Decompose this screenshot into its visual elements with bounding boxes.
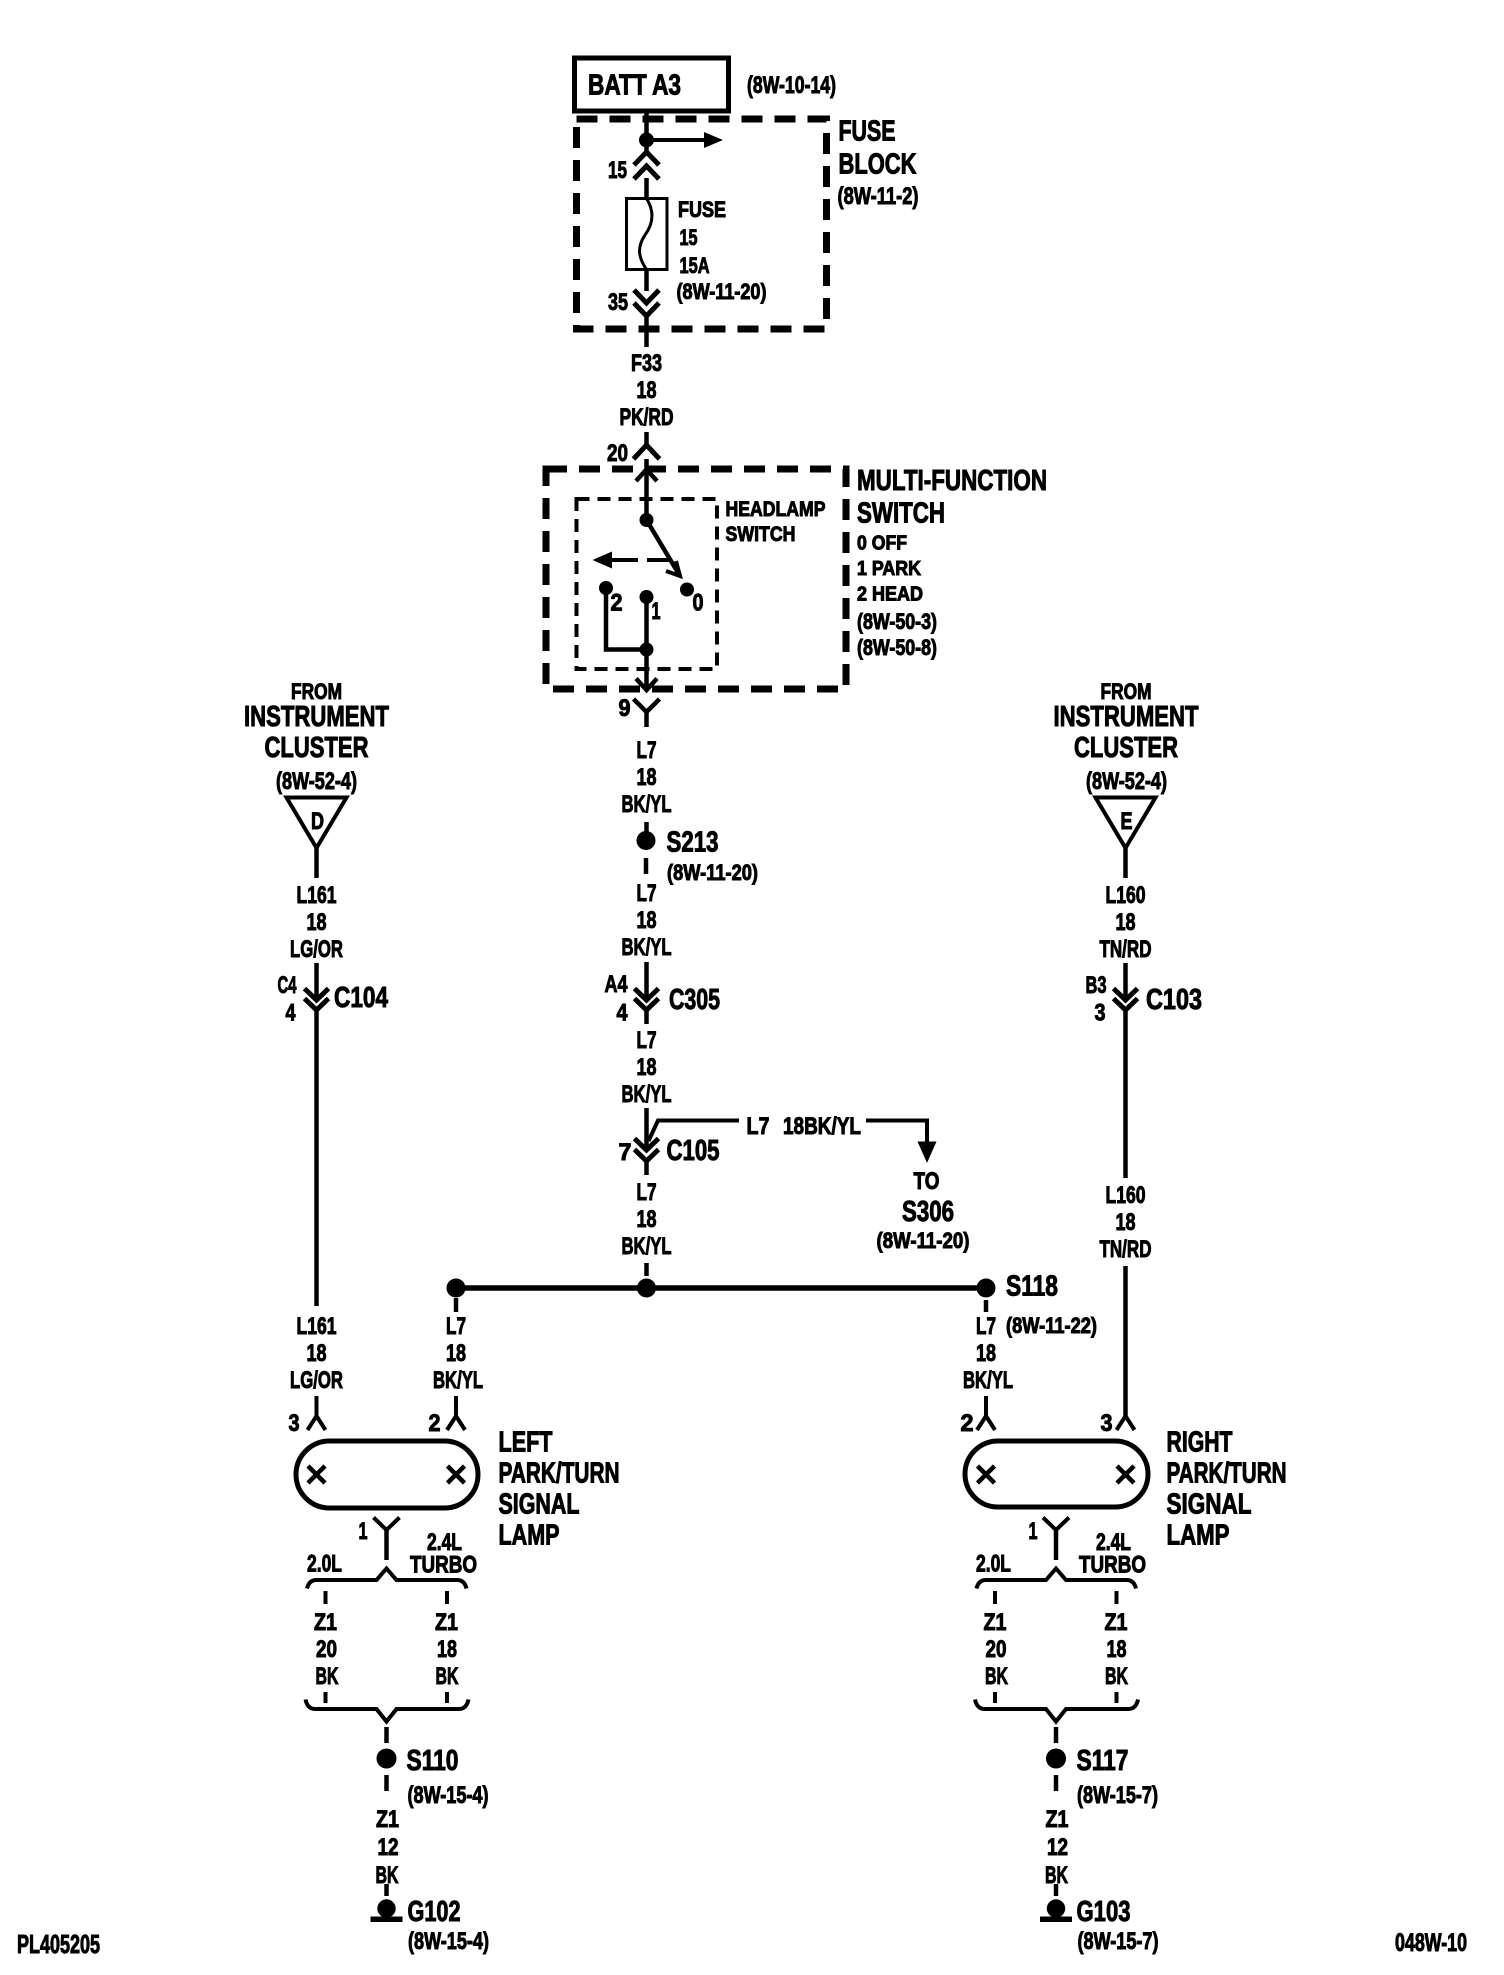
switch motion arrow — [593, 552, 613, 569]
svg-text:LAMP: LAMP — [1167, 1520, 1230, 1552]
svg-text:S117: S117 — [1077, 1745, 1129, 1777]
svg-text:18: 18 — [637, 377, 657, 404]
wire into C104 — [314, 963, 319, 998]
svg-text:18: 18 — [637, 1206, 657, 1233]
svg-text:SIGNAL: SIGNAL — [499, 1489, 580, 1521]
svg-text:SWITCH: SWITCH — [857, 498, 945, 530]
svg-text:(8W-15-7): (8W-15-7) — [1078, 1928, 1159, 1955]
connector C105 pin 7 chevrons — [635, 1139, 659, 1151]
svg-text:(8W-11-20): (8W-11-20) — [677, 279, 767, 304]
connector pin 9 Y symbol — [634, 699, 660, 712]
wire F33 lower segment — [644, 432, 649, 447]
svg-text:C305: C305 — [669, 984, 720, 1016]
variant merge brace (left) — [306, 1700, 469, 1722]
bus junction center node — [637, 1279, 656, 1298]
svg-text:HEADLAMP: HEADLAMP — [726, 498, 826, 521]
svg-text:L161: L161 — [297, 882, 337, 909]
svg-text:L7: L7 — [637, 737, 657, 764]
svg-text:G102: G102 — [408, 1896, 461, 1928]
svg-text:E: E — [1121, 808, 1133, 835]
svg-text:18: 18 — [307, 1340, 327, 1367]
switch blade to position 0 — [647, 520, 681, 576]
svg-text:TURBO: TURBO — [410, 1552, 477, 1579]
switch output junction node — [640, 643, 654, 657]
lamp pin 3 symbol (right) — [1117, 1416, 1126, 1430]
switch entry open arrow — [636, 470, 657, 482]
svg-text:L7: L7 — [637, 1027, 657, 1054]
wire stub 2.4L (left) — [445, 1591, 449, 1604]
lamp pin 2 symbol (right) — [984, 1396, 988, 1416]
left park/turn signal lamp body — [296, 1441, 478, 1508]
wire stub below S110 — [384, 1775, 389, 1791]
svg-text:BK: BK — [436, 1663, 459, 1690]
svg-text:2.0L: 2.0L — [976, 1551, 1011, 1578]
wire into C103 — [1123, 963, 1128, 998]
svg-text:G103: G103 — [1077, 1896, 1131, 1928]
svg-text:PL405205: PL405205 — [17, 1929, 100, 1959]
svg-text:PARK/TURN: PARK/TURN — [1167, 1458, 1287, 1490]
svg-text:L161: L161 — [297, 1313, 337, 1340]
svg-text:INSTRUMENT: INSTRUMENT — [244, 701, 389, 733]
svg-text:(8W-15-4): (8W-15-4) — [408, 1782, 489, 1809]
svg-text:TN/RD: TN/RD — [1100, 1236, 1152, 1263]
wire pin20 into switch — [644, 459, 649, 522]
svg-text:C105: C105 — [667, 1135, 720, 1167]
wire C104 to lamp label — [314, 1024, 319, 1306]
svg-text:C103: C103 — [1146, 984, 1202, 1016]
svg-text:12: 12 — [1047, 1834, 1068, 1861]
wire triangle E down — [1123, 848, 1128, 878]
connector C305 pin A4 chevrons — [635, 989, 659, 1001]
svg-text:3: 3 — [1101, 1410, 1113, 1437]
stub below BK 18 (left) — [445, 1692, 449, 1703]
splice bus wire — [456, 1285, 986, 1291]
svg-text:L7: L7 — [446, 1313, 466, 1340]
fuse block dashed box — [577, 119, 827, 329]
wire into C305 — [644, 962, 649, 998]
wire stub below S117 — [1054, 1775, 1059, 1791]
svg-text:(8W-11-22): (8W-11-22) — [1006, 1313, 1097, 1338]
svg-text:TURBO: TURBO — [1079, 1552, 1146, 1579]
svg-text:1: 1 — [359, 1518, 368, 1545]
off-page connector triangle E — [1096, 798, 1156, 849]
svg-text:(8W-10-14): (8W-10-14) — [747, 72, 836, 99]
wire contact 2 to junction — [606, 588, 647, 650]
svg-text:BK/YL: BK/YL — [622, 934, 672, 961]
lamp pin 1 symbol (left) — [374, 1518, 400, 1531]
svg-text:9: 9 — [619, 695, 631, 722]
svg-text:A4: A4 — [605, 971, 628, 998]
power source box BATT A3 — [575, 58, 729, 111]
wire stub into S117 — [1054, 1727, 1059, 1743]
svg-text:1: 1 — [652, 598, 661, 625]
svg-text:B3: B3 — [1086, 972, 1107, 999]
wire label to right lamp pin 3 — [1123, 1266, 1128, 1416]
wire stub below left bus node — [454, 1298, 459, 1312]
svg-text:12: 12 — [378, 1834, 399, 1861]
arrow feed to other circuits — [647, 138, 705, 142]
svg-text:4: 4 — [617, 1000, 629, 1027]
svg-text:BK: BK — [1105, 1663, 1128, 1690]
wire C103 to label — [1123, 1024, 1128, 1178]
svg-text:(8W-50-8): (8W-50-8) — [857, 635, 937, 660]
svg-text:(8W-15-4): (8W-15-4) — [408, 1928, 489, 1955]
svg-text:048W-10: 048W-10 — [1395, 1929, 1467, 1957]
svg-text:F33: F33 — [631, 350, 662, 377]
svg-text:LEFT: LEFT — [499, 1427, 553, 1459]
svg-text:BK/YL: BK/YL — [433, 1367, 483, 1394]
svg-text:18: 18 — [1116, 1209, 1136, 1236]
svg-text:Z1: Z1 — [1105, 1609, 1128, 1636]
lamp pin 1 symbol (right) — [1043, 1518, 1069, 1531]
svg-text:18: 18 — [1107, 1636, 1127, 1663]
right lamp filament X (pin3 side) — [1117, 1466, 1134, 1483]
svg-text:BK: BK — [316, 1663, 339, 1690]
multi-function switch dashed box — [546, 469, 846, 689]
svg-text:L7: L7 — [637, 1179, 657, 1206]
ground G103 symbol — [1047, 1899, 1065, 1917]
wire stub 2.0L (right) — [993, 1591, 997, 1604]
svg-text:SIGNAL: SIGNAL — [1167, 1489, 1252, 1521]
svg-text:BATT A3: BATT A3 — [588, 70, 681, 102]
svg-text:L7: L7 — [747, 1113, 770, 1140]
svg-text:Z1: Z1 — [435, 1609, 458, 1636]
svg-text:BLOCK: BLOCK — [839, 149, 917, 181]
stub below BK 20 (right) — [993, 1692, 997, 1703]
svg-text:18: 18 — [307, 909, 327, 936]
svg-text:LG/OR: LG/OR — [290, 936, 343, 963]
svg-text:SWITCH: SWITCH — [726, 523, 796, 546]
svg-text:2: 2 — [429, 1410, 441, 1437]
bus junction left node — [447, 1279, 466, 1298]
svg-text:7: 7 — [619, 1139, 632, 1166]
switch contact 0 node — [680, 583, 694, 597]
svg-text:LG/OR: LG/OR — [290, 1367, 343, 1394]
svg-text:20: 20 — [986, 1636, 1007, 1663]
svg-text:4: 4 — [286, 1000, 296, 1027]
wire fuse to pin 35 — [644, 270, 649, 292]
svg-text:15: 15 — [680, 225, 698, 250]
splice S118 node — [977, 1279, 996, 1298]
wire batt to junction — [644, 110, 649, 152]
connector pin 20 chevron — [634, 445, 660, 459]
wire stub 2.0L (left) — [324, 1591, 328, 1604]
ground G102 symbol — [377, 1899, 395, 1917]
connector C103 pin B3 chevrons — [1114, 989, 1138, 1001]
svg-text:(8W-52-4): (8W-52-4) — [276, 768, 357, 795]
connector pin 35 double chevron — [634, 290, 659, 303]
wire stub below S213 — [644, 858, 649, 874]
wire stub into S110 — [384, 1727, 389, 1743]
svg-text:L7: L7 — [637, 880, 657, 907]
wire stub below S118 — [984, 1300, 989, 1312]
svg-text:0: 0 — [693, 590, 704, 617]
svg-text:Z1: Z1 — [314, 1609, 337, 1636]
stub below BK 18 (right) — [1115, 1692, 1119, 1703]
headlamp switch inner dashed box — [577, 499, 718, 669]
variant merge brace (right) — [975, 1700, 1138, 1722]
connector C104 pin C4 chevrons — [305, 989, 329, 1001]
variant split brace (left) — [307, 1569, 467, 1589]
svg-text:Z1: Z1 — [984, 1609, 1007, 1636]
splice S213 — [637, 831, 656, 850]
left lamp filament X (pin3 side) — [308, 1466, 325, 1483]
wire chevron to fuse — [644, 178, 649, 200]
wire stub above bus — [644, 1263, 649, 1276]
svg-text:RIGHT: RIGHT — [1167, 1427, 1233, 1459]
svg-text:15A: 15A — [680, 253, 710, 278]
svg-text:18: 18 — [446, 1340, 466, 1367]
wire stub into G102 — [384, 1884, 389, 1896]
svg-text:S306: S306 — [902, 1196, 954, 1228]
wire triangle D down — [314, 848, 319, 878]
svg-text:MULTI-FUNCTION: MULTI-FUNCTION — [857, 465, 1047, 497]
svg-text:18: 18 — [637, 764, 657, 791]
splice S117 — [1046, 1749, 1066, 1769]
svg-text:(8W-52-4): (8W-52-4) — [1086, 768, 1167, 795]
branch wire to S306 — [649, 1121, 740, 1142]
svg-text:35: 35 — [608, 289, 628, 316]
wire stub into G103 — [1054, 1884, 1059, 1896]
variant split brace (right) — [977, 1569, 1137, 1589]
svg-text:CLUSTER: CLUSTER — [1074, 732, 1178, 764]
svg-text:D: D — [311, 808, 324, 835]
svg-text:INSTRUMENT: INSTRUMENT — [1054, 701, 1199, 733]
svg-text:C4: C4 — [278, 972, 297, 999]
svg-text:(8W-11-2): (8W-11-2) — [838, 183, 919, 210]
switch contact 2 node — [599, 581, 613, 595]
svg-text:TO: TO — [914, 1168, 940, 1195]
wire stub above S213 — [644, 822, 649, 836]
switch pivot node — [640, 513, 654, 527]
svg-text:TN/RD: TN/RD — [1100, 936, 1152, 963]
connector pin 15 double chevron — [634, 152, 659, 165]
svg-text:L160: L160 — [1106, 1182, 1146, 1209]
svg-text:BK: BK — [985, 1663, 1008, 1690]
svg-text:LAMP: LAMP — [499, 1520, 560, 1552]
wire F33 upper segment — [644, 313, 649, 347]
svg-text:18: 18 — [976, 1340, 996, 1367]
wire contact 1 to output — [644, 597, 649, 690]
svg-text:BK/YL: BK/YL — [622, 1081, 672, 1108]
svg-text:18BK/YL: 18BK/YL — [783, 1113, 861, 1140]
svg-text:PARK/TURN: PARK/TURN — [499, 1458, 620, 1490]
left lamp filament X (pin2 side) — [448, 1466, 465, 1483]
svg-text:(8W-15-7): (8W-15-7) — [1077, 1782, 1158, 1809]
svg-text:15: 15 — [608, 157, 627, 184]
svg-text:FUSE: FUSE — [678, 197, 726, 222]
svg-text:(8W-50-3): (8W-50-3) — [857, 609, 937, 634]
svg-text:L7: L7 — [976, 1313, 996, 1340]
wire stub 2.4L (right) — [1115, 1591, 1119, 1604]
svg-text:S110: S110 — [407, 1745, 459, 1777]
fuse FUSE 15 15A body — [627, 199, 668, 270]
svg-text:L160: L160 — [1106, 882, 1146, 909]
svg-text:0 OFF: 0 OFF — [857, 533, 907, 555]
svg-text:BK/YL: BK/YL — [622, 1233, 672, 1260]
wire into C105 — [644, 1108, 649, 1151]
svg-text:2 HEAD: 2 HEAD — [857, 584, 923, 606]
svg-text:1 PARK: 1 PARK — [857, 558, 921, 580]
stub below BK 20 (left) — [324, 1692, 328, 1703]
svg-text:2: 2 — [961, 1410, 974, 1437]
lamp pin 3 symbol (left) — [315, 1396, 319, 1416]
junction node in fuse block — [639, 133, 654, 148]
svg-text:(8W-11-20): (8W-11-20) — [877, 1228, 970, 1253]
svg-text:Z1: Z1 — [376, 1806, 399, 1833]
svg-text:C104: C104 — [334, 982, 388, 1014]
svg-text:CLUSTER: CLUSTER — [265, 732, 369, 764]
svg-text:2: 2 — [611, 590, 623, 617]
right lamp filament X (pin2 side) — [978, 1466, 995, 1483]
svg-text:18: 18 — [637, 1054, 657, 1081]
svg-text:BK/YL: BK/YL — [622, 791, 672, 818]
svg-text:PK/RD: PK/RD — [620, 404, 674, 431]
svg-text:S213: S213 — [667, 827, 719, 859]
right park/turn signal lamp body — [965, 1441, 1148, 1507]
svg-text:S118: S118 — [1006, 1271, 1058, 1303]
svg-text:18: 18 — [1116, 909, 1136, 936]
svg-text:FUSE: FUSE — [839, 116, 896, 148]
svg-text:20: 20 — [316, 1636, 337, 1663]
svg-text:1: 1 — [1029, 1518, 1038, 1545]
svg-text:3: 3 — [1095, 1000, 1106, 1027]
splice S110 — [377, 1749, 397, 1769]
off-page connector triangle D — [287, 798, 347, 849]
svg-text:(8W-11-20): (8W-11-20) — [667, 860, 758, 885]
svg-text:18: 18 — [437, 1636, 457, 1663]
svg-text:Z1: Z1 — [1046, 1806, 1069, 1833]
svg-text:18: 18 — [637, 907, 657, 934]
switch exit open arrow — [636, 679, 657, 691]
svg-text:BK/YL: BK/YL — [963, 1367, 1013, 1394]
switch contact 1 node — [640, 590, 654, 604]
svg-text:3: 3 — [289, 1410, 300, 1437]
lamp pin 2 symbol (left) — [454, 1396, 458, 1416]
svg-text:20: 20 — [607, 440, 628, 467]
svg-text:2.0L: 2.0L — [307, 1551, 342, 1578]
